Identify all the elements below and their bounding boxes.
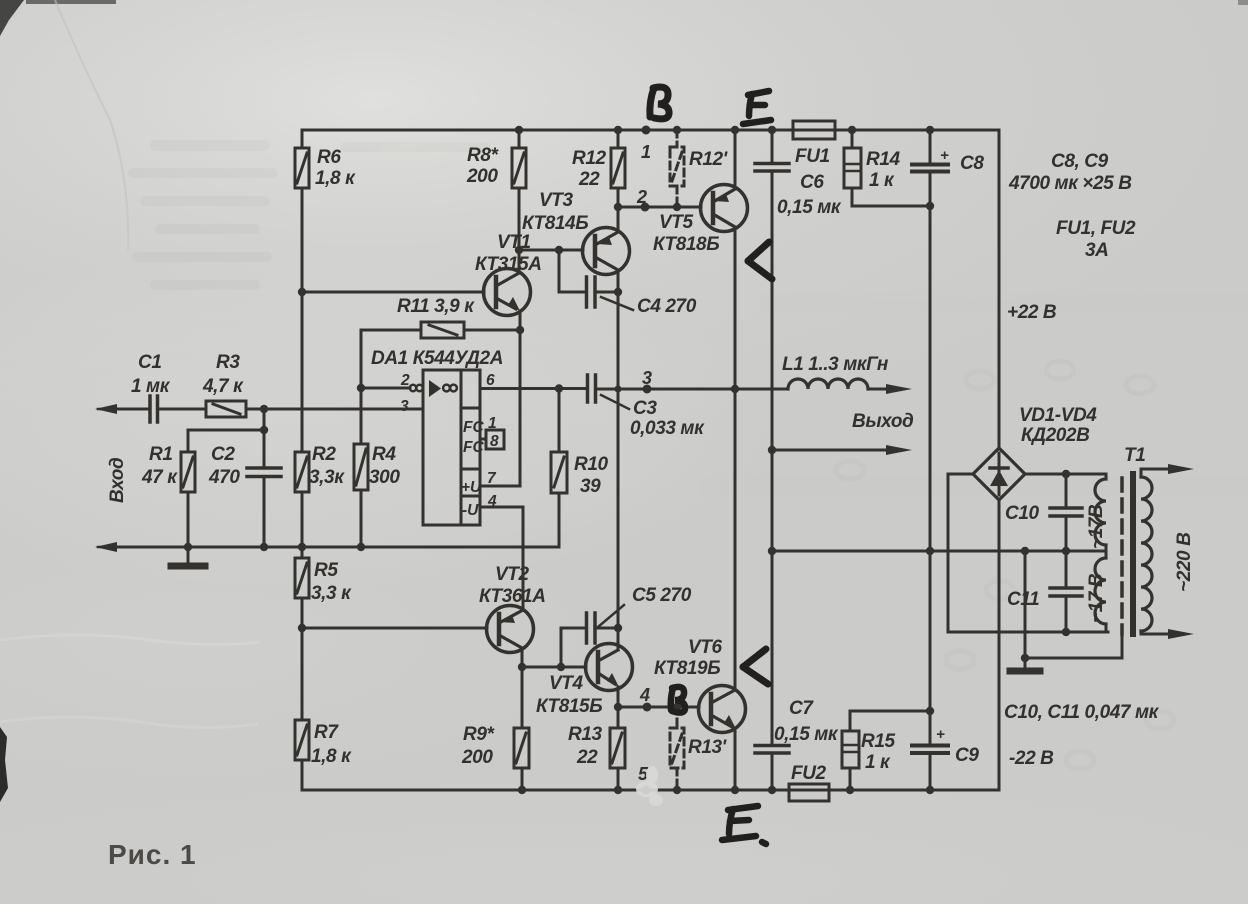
- node DA1 input junction: [357, 384, 365, 392]
- svg-text:+22 В: +22 В: [1007, 302, 1057, 323]
- wire VT5 base line: [618, 206, 701, 209]
- transistor VT1: [484, 250, 531, 316]
- svg-text:FC: FC: [463, 419, 484, 436]
- svg-text:VT4: VT4: [549, 673, 583, 694]
- svg-text:0,15 мк: 0,15 мк: [777, 197, 842, 218]
- label R6: [315, 147, 356, 189]
- transformer T1 secondary winding lower ~17V: [1095, 551, 1106, 632]
- node R1 bottom: [184, 543, 192, 551]
- resistor R1: [181, 452, 195, 547]
- node R12 bottom: [614, 203, 622, 211]
- resistor R5: [295, 558, 309, 720]
- DA1 pin 8 box: [480, 430, 504, 449]
- wire driver column: [617, 292, 620, 648]
- ground transformer: [1010, 668, 1040, 675]
- capacitor C10: [1050, 474, 1082, 551]
- node driver column output: [614, 385, 621, 392]
- node C9 bottom: [926, 786, 934, 794]
- svg-text:C1: C1: [138, 352, 162, 373]
- label C8: [940, 147, 984, 174]
- svg-text:VT6: VT6: [688, 637, 722, 658]
- label R1: [141, 444, 178, 488]
- resistor R10: [551, 389, 567, 548]
- label Рис. 1: [108, 839, 197, 870]
- svg-text:+: +: [936, 726, 945, 743]
- node VT5 emitter rail: [731, 126, 739, 134]
- transformer T1 primary winding: [1141, 469, 1152, 634]
- label test point 4: [639, 685, 650, 705]
- label test point 5: [638, 764, 649, 784]
- svg-text:3: 3: [642, 368, 652, 388]
- node C10/C11 mid: [1062, 547, 1070, 555]
- node R4 bottom: [357, 543, 365, 551]
- label R5: [311, 560, 352, 604]
- svg-text:1 к: 1 к: [869, 170, 895, 191]
- svg-text:0,033 мк: 0,033 мк: [630, 418, 705, 439]
- svg-text:FU1: FU1: [795, 146, 830, 167]
- wire -22V bottom rail: [302, 789, 999, 792]
- svg-text:300: 300: [369, 467, 400, 488]
- wire DA1 pin 7: [480, 485, 519, 488]
- svg-text:L1 1..3 мкГн: L1 1..3 мкГн: [782, 354, 889, 375]
- svg-text:С6: С6: [800, 172, 824, 193]
- node VT1 base junction: [298, 288, 306, 296]
- resistor R2: [295, 452, 309, 558]
- svg-text:470: 470: [208, 467, 240, 488]
- svg-text:R12': R12': [689, 149, 729, 170]
- label R10: [574, 454, 608, 497]
- svg-text:200: 200: [466, 166, 498, 187]
- label C10: [1005, 503, 1039, 524]
- wire mains lower arrow: [1141, 629, 1194, 639]
- svg-text:C8: C8: [960, 153, 984, 174]
- label R11: [397, 296, 475, 317]
- svg-text:~17В: ~17В: [1086, 504, 1107, 549]
- label C1: [131, 352, 171, 397]
- svg-text:22: 22: [578, 169, 600, 190]
- capacitor C2: [247, 430, 281, 547]
- node R9 bottom: [518, 786, 526, 794]
- node ground junction: [1021, 654, 1029, 662]
- svg-text:200: 200: [461, 747, 493, 768]
- node output branch: [768, 446, 776, 454]
- label ~17V lower (rotated): [1086, 573, 1107, 623]
- svg-text:R10: R10: [574, 454, 608, 475]
- label FU1: [795, 146, 830, 167]
- label R12: [572, 148, 606, 190]
- label Выход: [852, 411, 914, 432]
- node C2 top: [260, 426, 268, 434]
- svg-text:-22 В: -22 В: [1009, 748, 1054, 769]
- node C8 top: [926, 126, 934, 134]
- label DA1 FC FC: [463, 419, 484, 456]
- svg-text:6: 6: [486, 372, 495, 389]
- resistor R13: [610, 707, 625, 790]
- leader C5: [598, 605, 624, 627]
- node L1 tap: [731, 385, 739, 393]
- label C10 C11 value: [1004, 702, 1160, 723]
- node R11 to emitter column: [516, 326, 524, 334]
- svg-text:FU1, FU2: FU1, FU2: [1056, 218, 1136, 239]
- node VT2 base junction: [298, 624, 306, 632]
- fuse FU1: [793, 121, 835, 139]
- wire centre-tap mid rail: [772, 550, 1106, 553]
- svg-text:C9: C9: [955, 745, 979, 766]
- node C4 right: [614, 288, 622, 296]
- label VT1: [475, 232, 542, 275]
- label Вход (rotated): [107, 457, 128, 503]
- resistor R15: [842, 711, 859, 790]
- node K handwritten mid: [748, 242, 772, 279]
- label ~17V upper (rotated): [1086, 504, 1107, 549]
- node B handwritten top: [650, 87, 669, 119]
- node R2/R5 mid rail: [298, 543, 306, 551]
- label DA1 pin 7: [487, 470, 497, 487]
- wire screen ground link: [1025, 634, 1122, 658]
- label DA1 pin 6: [486, 372, 495, 389]
- node R15/C9 column: [926, 707, 934, 715]
- svg-text:47 к: 47 к: [141, 467, 178, 488]
- svg-text:R8*: R8*: [467, 145, 499, 166]
- svg-text:R7: R7: [314, 722, 339, 743]
- wire feedback riser: [360, 330, 363, 388]
- wire C6/C7 column: [771, 171, 774, 745]
- label C4: [637, 296, 697, 317]
- resistor R7: [295, 720, 309, 790]
- label DA1 -U: [462, 502, 479, 519]
- node B handwritten lower: [671, 687, 685, 713]
- resistor R12: [611, 130, 625, 207]
- node R13 bottom: [614, 786, 622, 794]
- label FU1 FU2 values: [1056, 218, 1136, 261]
- resistor R9: [514, 667, 529, 790]
- svg-text:Т1: Т1: [1124, 445, 1145, 466]
- label DA1 +U: [461, 479, 482, 496]
- svg-text:C7: C7: [789, 698, 814, 719]
- svg-text:КТ315А: КТ315А: [475, 254, 542, 275]
- capacitor C9: [912, 551, 948, 790]
- svg-text:R6: R6: [317, 147, 341, 168]
- svg-text:FU2: FU2: [791, 763, 827, 784]
- svg-text:1,8 к: 1,8 к: [311, 746, 352, 767]
- label C11: [1007, 589, 1039, 610]
- svg-text:C10, C11 0,047 мк: C10, C11 0,047 мк: [1004, 702, 1160, 723]
- wire VT2 base: [302, 627, 487, 630]
- label C7: [774, 698, 839, 745]
- label DA1: [371, 348, 503, 369]
- wire top rail right drop to bridge: [998, 130, 1001, 448]
- svg-text:R4: R4: [372, 444, 396, 465]
- node ground stub top: [1021, 547, 1029, 555]
- label -22V: [1009, 748, 1054, 769]
- node R12' bottom: [673, 203, 681, 211]
- node C5 right: [614, 624, 622, 632]
- leader C4: [601, 297, 633, 310]
- label DA1 pin 3: [400, 398, 409, 415]
- resistor R3: [158, 401, 247, 417]
- node C6 top: [768, 126, 776, 134]
- label +22V: [1007, 302, 1057, 323]
- svg-text:VT1: VT1: [497, 232, 531, 253]
- node K handwritten lower: [743, 649, 768, 684]
- transistor VT5: [701, 130, 748, 389]
- node test point 3: [643, 385, 652, 394]
- label C6: [777, 172, 842, 218]
- svg-text:1,8 к: 1,8 к: [315, 168, 356, 189]
- resistor R13' (dashed): [670, 707, 684, 790]
- svg-text:8: 8: [490, 433, 499, 450]
- wire DA1 pin 4: [480, 507, 523, 610]
- label R4: [369, 444, 400, 488]
- node C5 tap: [557, 663, 565, 671]
- svg-text:VT5: VT5: [659, 212, 693, 233]
- label test point 1: [641, 142, 651, 162]
- svg-text:R12: R12: [572, 148, 606, 169]
- svg-text:R14: R14: [866, 149, 900, 170]
- label VT3: [522, 190, 588, 234]
- svg-text:4: 4: [487, 493, 497, 510]
- node C10 top: [1062, 470, 1070, 478]
- svg-text:4700 мк ×25 В: 4700 мк ×25 В: [1008, 173, 1132, 194]
- svg-text:КТ819Б: КТ819Б: [654, 658, 720, 679]
- svg-text:3,3 к: 3,3 к: [311, 583, 352, 604]
- svg-text:Рис. 1: Рис. 1: [108, 839, 197, 870]
- node E handwritten bottom: [722, 806, 766, 844]
- wire input arrow: [98, 408, 113, 411]
- svg-text:2: 2: [400, 372, 410, 389]
- node C11 bottom: [1062, 628, 1070, 636]
- svg-text:VT2: VT2: [495, 564, 529, 585]
- resistor R4: [354, 388, 368, 547]
- svg-text:22: 22: [576, 747, 598, 768]
- label R13: [568, 724, 602, 768]
- node input branch: [260, 405, 268, 413]
- label VD1-VD4: [1019, 405, 1097, 446]
- label VT5: [653, 212, 719, 255]
- label R15: [861, 731, 895, 773]
- wire +22V top rail: [302, 129, 999, 132]
- svg-text:КТ815Б: КТ815Б: [536, 696, 602, 717]
- resistor R14: [844, 130, 930, 206]
- wire DA1 pin2 input: [361, 387, 410, 390]
- leader C3: [601, 395, 629, 409]
- label ~220V (rotated): [1174, 532, 1195, 592]
- wire VT4 base line: [522, 666, 586, 669]
- node VT6 emitter bottom: [731, 786, 739, 794]
- svg-text:4: 4: [639, 685, 650, 705]
- label R2: [309, 444, 345, 488]
- svg-text:КД202В: КД202В: [1021, 425, 1090, 446]
- svg-text:7: 7: [487, 470, 497, 487]
- label L1: [782, 354, 889, 375]
- capacitor C8: [912, 130, 948, 551]
- label test point 3: [642, 368, 652, 388]
- node test point 5: [642, 786, 651, 795]
- node test point 4: [643, 703, 652, 712]
- ground: [171, 547, 205, 566]
- wire ground stub: [1024, 551, 1027, 668]
- node centre tap rail: [768, 547, 776, 555]
- svg-text:R3: R3: [216, 352, 240, 373]
- resistor R6: [295, 130, 309, 188]
- label R7: [311, 722, 352, 767]
- svg-text:1: 1: [641, 142, 651, 162]
- svg-text:R13: R13: [568, 724, 602, 745]
- node R13' top: [673, 703, 681, 711]
- resistor R12' (dashed): [670, 130, 684, 207]
- node R8/VT1 collector: [515, 246, 523, 254]
- resistor R8: [512, 130, 526, 250]
- svg-text:+U: +U: [461, 479, 482, 496]
- svg-text:C3: C3: [633, 398, 657, 419]
- capacitor C6: [755, 130, 789, 171]
- transistor VT2: [487, 606, 534, 668]
- svg-text:C11: C11: [1007, 589, 1039, 610]
- svg-text:R13': R13': [688, 737, 728, 758]
- wire VT3 base line: [519, 249, 583, 252]
- label R14: [866, 149, 900, 191]
- svg-text:C10: C10: [1005, 503, 1039, 524]
- label C2: [208, 444, 240, 488]
- node VT4 emitter: [614, 703, 622, 711]
- label VT2: [479, 564, 546, 607]
- wire output terminal arrow: [772, 445, 912, 455]
- node R12 top: [614, 126, 622, 134]
- label DA1 pin 8: [490, 433, 499, 450]
- svg-text:-U: -U: [462, 502, 479, 519]
- node R10 top: [555, 384, 563, 392]
- op-amp DA1: [410, 370, 480, 525]
- svg-text:КТ361А: КТ361А: [479, 586, 546, 607]
- transistor VT4: [586, 644, 633, 708]
- svg-text:+: +: [940, 147, 949, 164]
- capacitor C4: [559, 250, 618, 307]
- svg-text:0,15 мк: 0,15 мк: [774, 724, 839, 745]
- label FU2: [791, 763, 827, 784]
- resistor R11: [361, 322, 520, 338]
- svg-text:Выход: Выход: [852, 411, 914, 432]
- svg-text:~220 В: ~220 В: [1174, 532, 1195, 592]
- node R8 top: [515, 126, 523, 134]
- node C8/C9 column mid rail: [926, 547, 934, 555]
- svg-text:C4 270: C4 270: [637, 296, 697, 317]
- transformer T1 screen (dashed): [1120, 478, 1124, 634]
- svg-text:КТ814Б: КТ814Б: [522, 213, 588, 234]
- fuse FU2: [789, 784, 829, 801]
- wire VT1 base: [302, 291, 484, 294]
- diode bridge VD1-VD4: [973, 448, 1025, 500]
- node C4 tap: [555, 246, 563, 254]
- capacitor C5: [561, 613, 618, 667]
- wire to R1: [188, 430, 264, 452]
- label DA1 pin 4: [487, 493, 497, 510]
- svg-text:2: 2: [636, 187, 647, 207]
- capacitor C7: [755, 746, 789, 791]
- svg-text:R1: R1: [149, 444, 173, 465]
- label DA1 pin 2: [400, 372, 410, 389]
- node R14 top: [848, 126, 856, 134]
- capacitor C3: [588, 375, 789, 402]
- capacitor C11: [1050, 551, 1082, 632]
- label VT6: [654, 637, 722, 679]
- node R14/C8 bottom: [926, 202, 934, 210]
- svg-text:~17 В: ~17 В: [1086, 573, 1107, 623]
- svg-text:3А: 3А: [1085, 240, 1109, 261]
- label test point 2: [636, 187, 647, 207]
- svg-text:C5 270: C5 270: [632, 585, 692, 606]
- wire output line pin6/C3: [480, 387, 587, 390]
- svg-text:C8, C9: C8, C9: [1051, 151, 1109, 172]
- label C9: [936, 726, 979, 766]
- label R12': [689, 149, 729, 170]
- node test point 1: [642, 126, 651, 135]
- wire winding bottom link: [948, 631, 1108, 634]
- node VT2 collector: [518, 663, 526, 671]
- svg-text:39: 39: [580, 476, 601, 497]
- svg-text:R2: R2: [312, 444, 336, 465]
- wire left ground rail: [118, 546, 559, 549]
- svg-text:VT3: VT3: [539, 190, 573, 211]
- node R12' top: [673, 126, 681, 134]
- capacitor C1: [118, 396, 158, 422]
- svg-text:C2: C2: [211, 444, 235, 465]
- node R15 bottom: [846, 786, 854, 794]
- label T1: [1124, 445, 1145, 466]
- svg-text:КТ818Б: КТ818Б: [653, 234, 719, 255]
- label R9*: [461, 724, 495, 768]
- svg-text:R15: R15: [861, 731, 895, 752]
- label VT4: [536, 673, 602, 717]
- wire branch down: [263, 409, 266, 430]
- transformer T1 core: [1130, 474, 1136, 634]
- wire mains upper arrow: [1141, 464, 1194, 474]
- svg-text:1 к: 1 к: [865, 752, 891, 773]
- transistor VT3: [583, 207, 630, 292]
- label C3: [630, 398, 705, 439]
- svg-text:1 мк: 1 мк: [131, 376, 171, 397]
- node R13' bottom: [673, 786, 681, 794]
- svg-text:1: 1: [488, 415, 497, 432]
- svg-text:R9*: R9*: [463, 724, 495, 745]
- svg-text:VD1-VD4: VD1-VD4: [1019, 405, 1097, 426]
- wire left column R6 to R2: [301, 188, 304, 452]
- svg-text:Вход: Вход: [107, 457, 128, 503]
- wire emitter column VT1 to pin7: [519, 311, 522, 486]
- node C2 bottom: [260, 543, 268, 551]
- wire VT6 base line: [618, 706, 699, 709]
- wire bridge minus drop: [998, 500, 1001, 790]
- svg-text:R5: R5: [314, 560, 338, 581]
- label R13': [688, 737, 728, 758]
- wire input line to DA1: [246, 408, 423, 411]
- label C5: [632, 585, 692, 606]
- label R3: [202, 352, 244, 397]
- wire bridge left AC lead: [948, 474, 973, 632]
- label R8*: [466, 145, 499, 187]
- svg-text:FC: FC: [463, 439, 484, 456]
- svg-text:DA1 К544УД2А: DA1 К544УД2А: [371, 348, 503, 369]
- svg-text:4,7 к: 4,7 к: [202, 376, 244, 397]
- wire R15 top link: [850, 710, 930, 713]
- node C7 bottom: [768, 786, 776, 794]
- svg-text:3: 3: [400, 398, 409, 415]
- transformer T1 secondary winding upper ~17V: [1095, 474, 1106, 551]
- node test point 2: [641, 203, 650, 212]
- inductor L1: [788, 379, 912, 394]
- svg-text:R11 3,9 к: R11 3,9 к: [397, 296, 475, 317]
- svg-text:3,3к: 3,3к: [309, 467, 345, 488]
- node E handwritten top: [743, 91, 771, 124]
